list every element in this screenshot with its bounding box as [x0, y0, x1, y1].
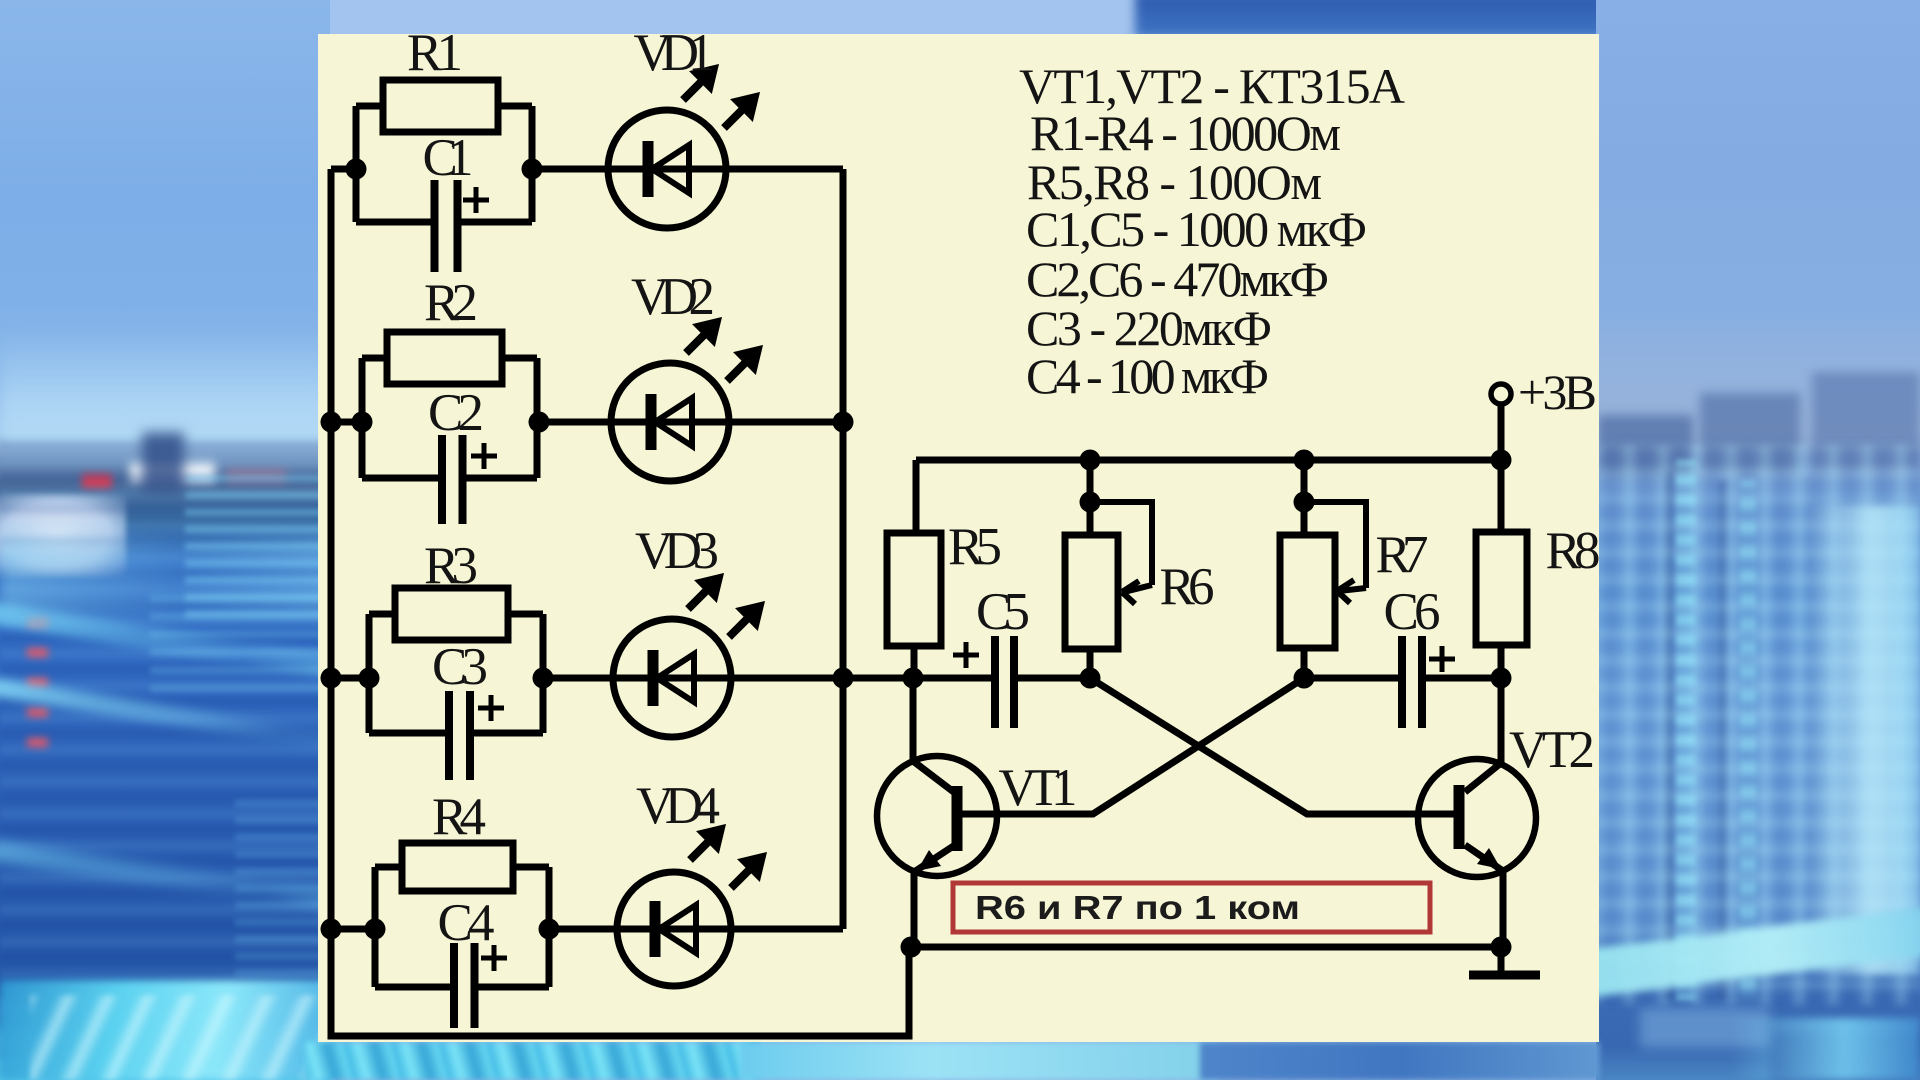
svg-text:VD1: VD1 [634, 24, 715, 82]
svg-text:R8: R8 [1546, 522, 1601, 580]
svg-text:R7: R7 [1376, 526, 1429, 584]
svg-text:R6 и R7 по 1 ком: R6 и R7 по 1 ком [975, 889, 1300, 926]
svg-text:C4: C4 [438, 894, 495, 952]
svg-text:R3: R3 [424, 537, 478, 595]
svg-text:C6: C6 [1384, 583, 1441, 641]
svg-text:C2: C2 [428, 384, 484, 442]
svg-text:R4: R4 [432, 788, 486, 846]
svg-text:R1: R1 [407, 24, 463, 82]
svg-text:+3B: +3B [1518, 364, 1597, 420]
svg-text:VD3: VD3 [635, 522, 719, 580]
svg-text:C1,C5 - 1000 мкФ: C1,C5 - 1000 мкФ [1026, 201, 1367, 257]
svg-text:C2,C6 - 470мкФ: C2,C6 - 470мкФ [1026, 251, 1329, 307]
svg-text:R6: R6 [1160, 558, 1215, 616]
svg-text:R5: R5 [948, 518, 1002, 576]
svg-text:C3: C3 [432, 638, 488, 696]
svg-text:VT2: VT2 [1509, 721, 1595, 779]
svg-text:VD4: VD4 [636, 777, 720, 835]
svg-text:R2: R2 [424, 274, 478, 332]
svg-text:VD2: VD2 [631, 268, 715, 326]
svg-text:C4 - 100 мкФ: C4 - 100 мкФ [1026, 348, 1269, 404]
svg-text:C1: C1 [423, 129, 474, 187]
svg-text:VT1: VT1 [999, 759, 1078, 817]
svg-text:C5: C5 [976, 583, 1030, 641]
svg-text:R1-R4 - 1000Ом: R1-R4 - 1000Ом [1030, 105, 1341, 161]
